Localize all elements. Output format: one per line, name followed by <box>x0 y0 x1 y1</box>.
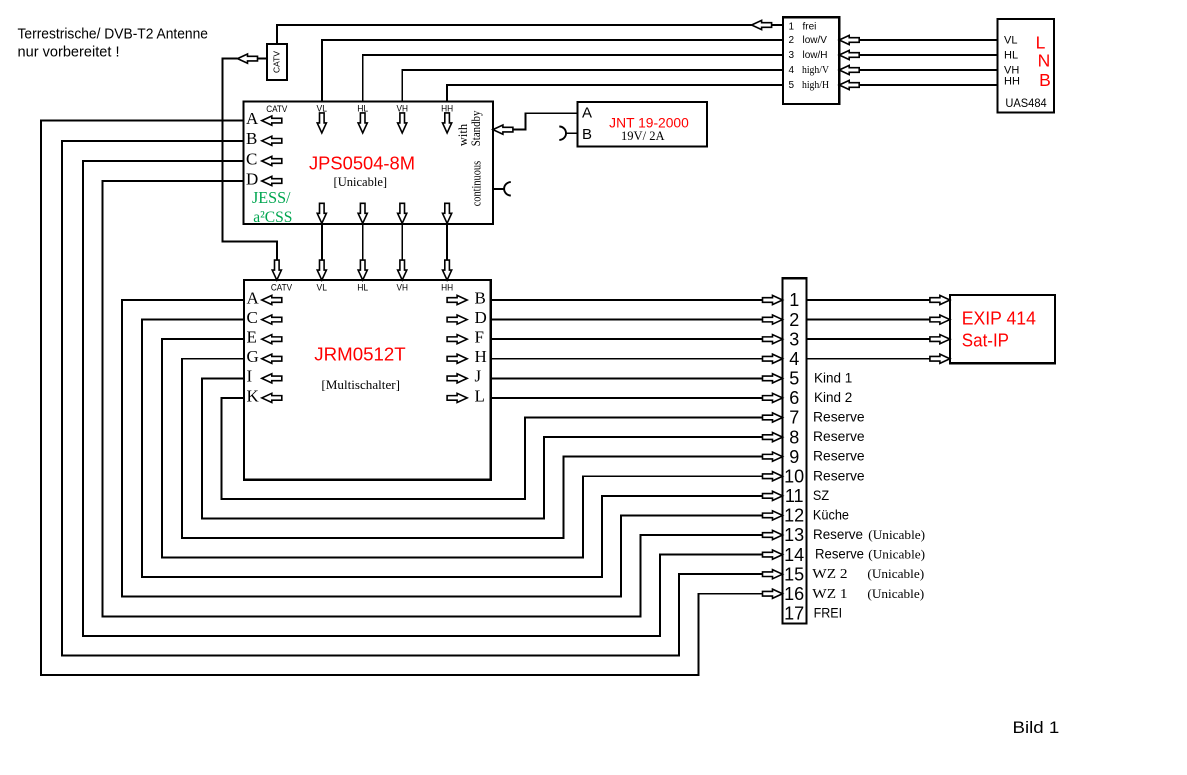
arrow into output port 7 <box>763 413 783 422</box>
svg-text:VH: VH <box>396 283 408 294</box>
arrow JRM output D (points right) <box>447 315 467 324</box>
svg-text:with: with <box>456 123 470 146</box>
arrow JRM port E (points left) <box>262 335 282 344</box>
wire CATV antenna net: small CATV box top to frei port row 1 <box>277 25 752 44</box>
svg-text:Reserve: Reserve <box>813 468 865 483</box>
svg-text:5: 5 <box>789 369 799 389</box>
svg-text:CATV: CATV <box>272 51 282 73</box>
arrow into output port 12 <box>763 511 783 520</box>
svg-text:D: D <box>246 169 258 188</box>
arrow JRM output L (points right) <box>447 393 467 402</box>
svg-text:(Unicable): (Unicable) <box>867 586 924 601</box>
wire JRM port J to output 5 <box>491 377 763 379</box>
svg-text:1: 1 <box>789 290 799 310</box>
svg-text:JESS/: JESS/ <box>252 188 291 207</box>
svg-text:N: N <box>1038 51 1051 71</box>
arrow into output port 11 <box>763 491 783 500</box>
arrow into output port 14 <box>763 550 783 559</box>
arrow into output port 3 <box>763 335 783 344</box>
svg-text:E: E <box>247 328 257 347</box>
svg-text:Reserve: Reserve <box>813 410 865 425</box>
svg-text:19V/ 2A: 19V/ 2A <box>621 128 665 143</box>
arrow into output port 10 <box>763 472 783 481</box>
svg-text:low/H: low/H <box>803 50 828 61</box>
LNB port junction box (outputs 1-5) <box>783 17 839 104</box>
svg-text:B: B <box>475 288 486 307</box>
svg-text:high/H: high/H <box>802 79 829 91</box>
multiswitch JRM0512T box <box>244 280 491 480</box>
svg-text:L: L <box>1036 32 1046 52</box>
svg-text:VL: VL <box>317 104 328 115</box>
arrow into output port 15 <box>763 570 783 579</box>
svg-text:7: 7 <box>789 408 799 428</box>
svg-text:HH: HH <box>441 104 453 115</box>
wire JPS port A loop to output 16 <box>41 121 763 675</box>
svg-text:L: L <box>475 386 485 405</box>
svg-text:1: 1 <box>789 21 795 32</box>
svg-text:VH: VH <box>396 104 408 115</box>
arrow JRM output B (points right) <box>447 295 467 304</box>
arrow into output port 13 <box>763 530 783 539</box>
svg-text:Reserve: Reserve <box>815 547 864 562</box>
arrow JRM top input HL <box>358 260 367 280</box>
arrow LNB VH into switch row 4 <box>839 65 859 74</box>
arrow into EXIP tuner 1 <box>930 295 950 304</box>
arrow JRM port G (points left) <box>262 354 282 363</box>
arrow LNB HL into switch row 3 <box>839 50 859 59</box>
svg-text:B: B <box>246 129 257 148</box>
wire JNT A output to JPS standby input <box>513 113 578 129</box>
wire JNT B stub to open connector <box>566 132 577 134</box>
svg-text:A: A <box>246 109 259 128</box>
arrow JPS top input VL <box>317 113 326 133</box>
arrow CATV into JRM top <box>272 260 281 280</box>
wire JPS port C loop to output 14 <box>83 161 763 636</box>
multiswitch JPS0504-8M box <box>244 101 493 224</box>
svg-text:3: 3 <box>789 50 795 61</box>
svg-text:Reserve: Reserve <box>813 429 865 444</box>
wire JPS continuous output stub <box>493 188 504 190</box>
svg-text:VL: VL <box>317 283 328 294</box>
arrow JPS top input VH <box>398 113 407 133</box>
wire LNB VL output to switch row 2 <box>859 39 997 41</box>
arrow JPS port A (points left) <box>262 116 282 125</box>
svg-text:EXIP 414: EXIP 414 <box>962 309 1036 329</box>
svg-text:C: C <box>247 308 258 327</box>
wire JRM port F to output 3 <box>491 338 763 340</box>
svg-text:4: 4 <box>789 349 799 369</box>
arrow terrestrial antenna (points left) <box>238 54 258 63</box>
arrow power into JPS standby port <box>493 125 513 134</box>
svg-text:WZ 1: WZ 1 <box>812 587 847 602</box>
wire JRM port H to output 4 <box>491 358 763 360</box>
wire VL net: JPS top VL up and right to row 2 low/V <box>322 40 783 101</box>
CATV attenuator box <box>267 44 287 80</box>
wire LNB VH output to switch row 4 <box>859 69 997 71</box>
arrow JPS port B (points left) <box>262 136 282 145</box>
wire stub row-1 frei arrow tail to switch box <box>772 24 783 26</box>
arrow LNB VL into switch row 2 <box>839 35 859 44</box>
svg-text:H: H <box>475 347 487 366</box>
arrow into output port 1 <box>763 295 783 304</box>
arrow LNB HH into switch row 5 <box>839 80 859 89</box>
arrow JRM port C (points left) <box>262 315 282 324</box>
arrow JRM port K (points left) <box>262 393 282 402</box>
wire JRM port L to output 6 <box>491 397 763 399</box>
svg-text:A: A <box>582 105 592 122</box>
svg-text:9: 9 <box>789 447 799 467</box>
wire JPS bottom VL to JRM top VL <box>321 224 323 260</box>
wire HH net: JPS top HH to row 5 high/H <box>447 85 783 101</box>
svg-text:B: B <box>1039 70 1051 90</box>
power supply JNT 19-2000 box <box>577 102 707 147</box>
svg-text:CATV: CATV <box>266 104 288 115</box>
svg-text:K: K <box>247 386 260 405</box>
svg-text:(Unicable): (Unicable) <box>868 527 925 542</box>
open connector arc at JNT B (unused) <box>559 127 566 140</box>
svg-text:14: 14 <box>784 545 804 565</box>
arrow into EXIP tuner 4 <box>930 354 950 363</box>
wire VH net: JPS top VH to row 4 high/V <box>402 70 783 101</box>
wire JRM port A loop to output 12 <box>122 300 763 597</box>
svg-text:F: F <box>475 328 484 347</box>
svg-text:a²CSS: a²CSS <box>253 209 292 226</box>
svg-text:5: 5 <box>789 80 795 91</box>
svg-text:6: 6 <box>789 388 799 408</box>
svg-text:HH: HH <box>1004 76 1020 88</box>
arrow into output port 2 <box>763 315 783 324</box>
wire output 4 to EXIP 414 tuner 4 <box>806 358 931 360</box>
svg-text:(Unicable): (Unicable) <box>867 566 924 581</box>
svg-text:G: G <box>247 347 259 366</box>
svg-text:low/V: low/V <box>803 35 828 46</box>
svg-text:JRM0512T: JRM0512T <box>314 343 405 364</box>
svg-text:JPS0504-8M: JPS0504-8M <box>309 154 415 174</box>
arrow JRM top input VL <box>317 260 326 280</box>
wire JPS port D loop to output 13 <box>103 181 763 617</box>
wire output 1 to EXIP 414 tuner 1 <box>806 299 931 301</box>
arrow into output port 4 <box>763 354 783 363</box>
svg-text:Kind 2: Kind 2 <box>814 390 852 405</box>
svg-text:HL: HL <box>357 283 368 294</box>
svg-text:nur vorbereitet !: nur vorbereitet ! <box>18 44 120 60</box>
arrow JPS bottom output HH <box>443 203 452 223</box>
svg-text:Küche: Küche <box>813 507 849 522</box>
svg-text:VL: VL <box>1004 34 1017 46</box>
svg-text:D: D <box>475 308 487 327</box>
svg-text:Bild 1: Bild 1 <box>1013 719 1060 737</box>
arrow JRM output H (points right) <box>447 354 467 363</box>
svg-text:Kind 1: Kind 1 <box>814 370 852 385</box>
svg-text:UAS484: UAS484 <box>1005 98 1047 110</box>
svg-text:B: B <box>582 126 592 143</box>
arrow JRM output J (points right) <box>447 374 467 383</box>
arrow into output port 8 <box>763 432 783 441</box>
arrow into EXIP tuner 2 <box>930 315 950 324</box>
arrow JPS bottom output HL <box>358 203 367 223</box>
wire JRM port K loop to output 7 <box>221 398 762 499</box>
arrow JRM port I (points left) <box>262 374 282 383</box>
svg-text:[Multischalter]: [Multischalter] <box>321 377 400 392</box>
svg-text:SZ: SZ <box>813 488 829 503</box>
svg-text:Reserve: Reserve <box>813 449 865 464</box>
wire LNB HH output to switch row 5 <box>859 84 997 86</box>
svg-text:Terrestrische/ DVB-T2 Antenne: Terrestrische/ DVB-T2 Antenne <box>18 27 209 43</box>
wire JRM port D to output 2 <box>491 319 763 321</box>
svg-text:12: 12 <box>784 506 804 526</box>
wire JRM port G loop to output 9 <box>182 359 763 538</box>
svg-text:high/V: high/V <box>802 64 829 76</box>
arrow JPS top input HH <box>443 113 452 133</box>
svg-text:HL: HL <box>1004 49 1018 61</box>
svg-text:17: 17 <box>784 604 804 624</box>
arrow into EXIP tuner 3 <box>930 335 950 344</box>
svg-text:J: J <box>475 367 482 386</box>
LNB UAS484 box <box>997 19 1054 112</box>
arrow into output port 16 <box>763 589 783 598</box>
svg-text:I: I <box>247 367 253 386</box>
wire output 2 to EXIP 414 tuner 2 <box>806 319 931 321</box>
EXIP 414 Sat-IP server box <box>950 295 1055 363</box>
svg-text:CATV: CATV <box>271 283 293 294</box>
arrow JRM top input HH <box>443 260 452 280</box>
svg-text:4: 4 <box>789 65 795 76</box>
arrow JRM output F (points right) <box>447 335 467 344</box>
wire JRM port B to output 1 <box>491 299 763 301</box>
arrow JRM port A (points left) <box>262 295 282 304</box>
arrow into output port 9 <box>763 452 783 461</box>
svg-text:FREI: FREI <box>814 605 843 620</box>
svg-text:VH: VH <box>1004 64 1019 76</box>
arrow JPS bottom output VH <box>398 203 407 223</box>
svg-text:continuous: continuous <box>470 161 484 207</box>
svg-text:HH: HH <box>441 283 453 294</box>
wire JRM port I loop to output 8 <box>202 378 763 518</box>
wire HL net: JPS top HL to row 3 low/H <box>363 55 783 101</box>
svg-text:Sat-IP: Sat-IP <box>962 331 1009 351</box>
arrow JPS port C (points left) <box>262 156 282 165</box>
svg-text:A: A <box>247 288 260 307</box>
svg-text:3: 3 <box>789 329 799 349</box>
wire JPS bottom HL to JRM top HL <box>362 224 364 260</box>
svg-text:(Unicable): (Unicable) <box>868 547 925 562</box>
svg-text:WZ 2: WZ 2 <box>812 567 847 582</box>
svg-text:C: C <box>246 149 257 168</box>
arrow into row 1 frei (points left) <box>752 20 772 29</box>
svg-text:8: 8 <box>789 427 799 447</box>
svg-text:frei: frei <box>803 21 817 32</box>
svg-text:15: 15 <box>784 564 804 584</box>
svg-text:[Unicable]: [Unicable] <box>334 174 388 189</box>
arrow JPS bottom output VL <box>317 203 326 223</box>
svg-text:10: 10 <box>784 466 804 486</box>
wire LNB HL output to switch row 3 <box>859 54 997 56</box>
wire JRM port E loop to output 10 <box>162 339 763 557</box>
arrow JPS port D (points left) <box>262 176 282 185</box>
arrow into output port 6 <box>763 393 783 402</box>
wire JPS bottom HH to JRM top HH <box>446 224 448 260</box>
svg-text:2: 2 <box>789 310 799 330</box>
wire JPS bottom VH to JRM top VH <box>401 224 403 260</box>
wire output 3 to EXIP 414 tuner 3 <box>806 338 931 340</box>
svg-text:11: 11 <box>785 486 804 506</box>
svg-text:Reserve: Reserve <box>813 527 863 542</box>
svg-text:13: 13 <box>784 525 804 545</box>
open connector arc at JPS continuous output (unused) <box>504 182 511 195</box>
wire JRM port C loop to output 11 <box>142 320 763 577</box>
wire JPS port B loop to output 15 <box>62 141 763 656</box>
arrow JRM top input VH <box>398 260 407 280</box>
svg-text:Standby: Standby <box>469 110 483 146</box>
arrow into output port 5 <box>763 374 783 383</box>
wire terrestrial antenna stub to CATV attenuator <box>258 58 268 60</box>
svg-text:2: 2 <box>789 35 795 46</box>
svg-text:16: 16 <box>784 584 804 604</box>
arrow JPS top input HL <box>358 113 367 133</box>
output distribution box (ports 1-17) <box>783 278 807 623</box>
svg-text:HL: HL <box>357 104 368 115</box>
wire terrestrial antenna route: arrow tip left, down, right, down into JRM CATV <box>222 59 276 261</box>
